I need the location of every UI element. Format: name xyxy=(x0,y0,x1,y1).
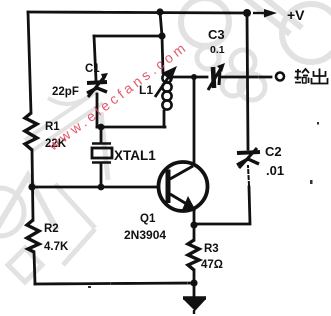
svg-text:4.7K: 4.7K xyxy=(44,241,69,253)
svg-text:2N3904: 2N3904 xyxy=(124,228,166,242)
svg-text:47Ω: 47Ω xyxy=(201,259,223,271)
svg-text:XTAL1: XTAL1 xyxy=(114,148,156,163)
svg-text:R3: R3 xyxy=(204,243,219,255)
svg-text:+V: +V xyxy=(287,7,305,23)
svg-text:0.1: 0.1 xyxy=(210,44,225,56)
svg-text:22pF: 22pF xyxy=(52,86,79,98)
svg-text:Q1: Q1 xyxy=(140,213,156,225)
svg-text:C3: C3 xyxy=(208,27,225,42)
svg-text:R2: R2 xyxy=(44,223,59,235)
svg-text:C2: C2 xyxy=(265,144,282,159)
svg-text:C1: C1 xyxy=(85,63,100,75)
svg-text:.01: .01 xyxy=(266,163,284,178)
